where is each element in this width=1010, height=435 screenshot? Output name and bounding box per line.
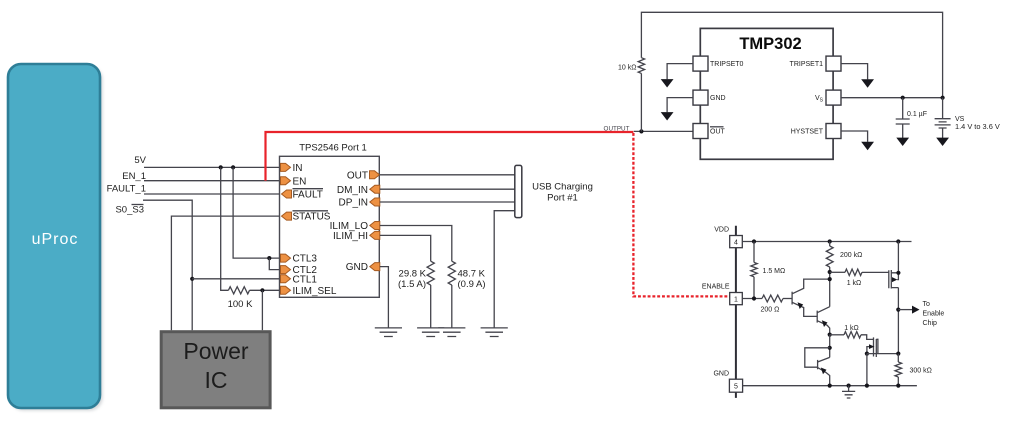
resistor 1 kOhm upper [845, 269, 862, 275]
wire DM_IN to USB port [380, 188, 515, 190]
pin label OUT with overline [710, 127, 726, 136]
svg-text:5V: 5V [134, 155, 146, 166]
node on 5V wire A [219, 165, 223, 169]
wire M1 source to VDD [897, 242, 899, 273]
pin 5 box [729, 379, 742, 392]
svg-text:TRIPSET1: TRIPSET1 [790, 61, 824, 68]
pin label FAULT with overline [293, 189, 324, 201]
pin GND box [693, 90, 708, 105]
svg-text:CTL1: CTL1 [293, 274, 318, 285]
svg-text:GND: GND [713, 371, 729, 378]
svg-text:TRIPSET0: TRIPSET0 [710, 61, 744, 68]
node 300k gnd [896, 384, 900, 388]
wire 1k upper to gate [862, 271, 889, 273]
wire 200 Ohm to Q1 base [783, 298, 792, 300]
resistor 200 Ohm [762, 295, 783, 302]
wire ILIM_SEL branch to Power IC [261, 290, 263, 330]
resistor R_ILIM 100 K [228, 287, 249, 294]
wire GND pin to ground [380, 267, 389, 328]
transistor Q1 [792, 279, 830, 316]
svg-text:IN: IN [293, 163, 303, 174]
pin TRIPSET1 box [826, 56, 841, 71]
wire 100K to ILIM_SEL [250, 289, 281, 291]
ground arrow TRIPSET0 [661, 79, 674, 87]
wire M2 source to gnd [866, 354, 868, 386]
svg-text:Enable: Enable [923, 311, 945, 318]
node CTL3 [267, 256, 271, 260]
svg-text:OUT: OUT [710, 129, 726, 136]
svg-text:DP_IN: DP_IN [339, 198, 368, 209]
resistor 10 kOhm [638, 58, 644, 74]
svg-text:ILIM_HI: ILIM_HI [333, 231, 368, 242]
ground for GND pin [375, 328, 402, 337]
node on 5V wire B [231, 165, 235, 169]
value label 48.7 K (0.9 A) [458, 269, 486, 291]
wire Q2emitter to Q3 [829, 335, 831, 358]
wire CTL3 node to CTL2 [269, 258, 280, 270]
svg-text:OUTPUT: OUTPUT [604, 125, 630, 132]
wire EN_1 to EN [144, 180, 281, 182]
wire FAULT_1 to FAULT [144, 193, 282, 195]
node Q3 emitter gnd [828, 384, 832, 388]
node VDD mosfet [896, 239, 900, 243]
pin HYSTSET box [826, 124, 841, 139]
pin TRIPSET0 box [693, 56, 708, 71]
ground arrow capacitor [896, 138, 909, 146]
pin arrow IN [281, 163, 291, 171]
wire STATUS to Power IC [171, 216, 281, 330]
resistor 200 kOhm [826, 246, 833, 267]
node 300k top [896, 352, 900, 356]
svg-text:1.4 V to 3.6 V: 1.4 V to 3.6 V [955, 122, 1000, 131]
svg-text:300 kΩ: 300 kΩ [910, 368, 932, 375]
wire M2 drain to 300k node [867, 353, 898, 355]
bus VDD-ENABLE-GND [735, 226, 737, 398]
svg-text:ENABLE: ENABLE [702, 284, 730, 291]
resistor 1 kOhm lower [844, 332, 861, 338]
wire TRIPSET0 to gnd [667, 64, 693, 80]
svg-text:Chip: Chip [923, 320, 938, 327]
node VDD 1.5M [752, 239, 756, 243]
wire 1k upper [830, 271, 845, 273]
wire 5V to IN [144, 166, 281, 168]
node Vs battery [941, 96, 945, 100]
svg-text:100 K: 100 K [228, 299, 253, 310]
wire to enable arrow [898, 306, 919, 314]
wire 1k lower to gate M2 [861, 335, 874, 340]
resistor 1.5 MOhm [751, 242, 757, 299]
svg-text:GND: GND [710, 95, 726, 102]
node M2 source gnd [865, 384, 869, 388]
svg-text:EN_1: EN_1 [122, 171, 146, 182]
pin 4 box [730, 236, 743, 248]
svg-text:5: 5 [734, 384, 738, 391]
capacitor 0.1 uF [896, 98, 910, 138]
svg-text:USB Charging: USB Charging [532, 182, 593, 193]
svg-text:1: 1 [734, 296, 738, 303]
pin arrow CTL1 [281, 275, 291, 283]
transistor Q3 [818, 357, 830, 385]
wire DP_IN to USB port [380, 201, 515, 203]
svg-text:TMP302: TMP302 [739, 35, 801, 53]
svg-text:OUT: OUT [347, 170, 368, 181]
ground arrow GND [661, 112, 674, 120]
wire ILIM_HI down [380, 235, 431, 328]
pin arrow CTL3 [281, 254, 291, 262]
pin OUT box [693, 124, 708, 139]
wire M1 drain down [897, 288, 899, 354]
USB connector [515, 165, 522, 217]
wire GND to gnd arrow [667, 98, 693, 113]
wire HYSTSET to gnd [841, 131, 868, 142]
svg-text:HYSTSET: HYSTSET [791, 129, 824, 136]
Power IC block [161, 332, 270, 408]
svg-text:(1.5 A): (1.5 A) [398, 279, 426, 290]
pin arrow ILIM_SEL [281, 286, 291, 294]
node Q3 base loop [828, 346, 832, 350]
svg-text:VDD: VDD [714, 227, 729, 234]
wire OUT to USB port [380, 174, 515, 176]
svg-text:Power: Power [183, 338, 249, 364]
ground arrow battery [936, 138, 949, 146]
svg-text:FAULT_1: FAULT_1 [107, 184, 146, 195]
svg-text:200 Ω: 200 Ω [761, 307, 780, 314]
pin arrow STATUS [282, 212, 292, 220]
pin arrow OUT [370, 171, 380, 179]
svg-text:TPS2546 Port 1: TPS2546 Port 1 [299, 143, 367, 154]
uProc block [8, 64, 103, 411]
label To Enable Chip [923, 301, 945, 327]
svg-text:200 kΩ: 200 kΩ [840, 252, 862, 259]
svg-text:1.5 MΩ: 1.5 MΩ [763, 268, 786, 275]
wire 10k branch [641, 12, 942, 131]
resistor 48.7 K [448, 261, 455, 285]
ground for 48.7K [438, 328, 465, 337]
pin label STATUS with overline [293, 211, 331, 223]
wire CTL1 [192, 278, 281, 280]
GND rail [743, 385, 917, 387]
svg-text:GND: GND [346, 262, 368, 273]
node OUTPUT [639, 129, 643, 133]
node Vs cap [901, 96, 905, 100]
pin Vs box [826, 90, 841, 105]
svg-text:uProc: uProc [32, 231, 79, 248]
wire 5V branch B to CTL3 [233, 167, 281, 258]
svg-text:1 kΩ: 1 kΩ [844, 325, 859, 332]
pin arrow GND [370, 263, 380, 271]
wire Vs to supply [841, 97, 943, 99]
svg-text:S0_S3: S0_S3 [115, 205, 144, 216]
battery VS [935, 98, 951, 138]
svg-text:0.1 µF: 0.1 µF [907, 111, 927, 118]
value label VS 1.4V to 3.6V [955, 116, 1000, 131]
node M2 source [865, 352, 869, 356]
net label S0_S3 with overline [115, 205, 144, 216]
wire 5V branch A to 100K [221, 167, 229, 290]
svg-text:DM_IN: DM_IN [337, 185, 368, 196]
svg-text:To: To [923, 301, 931, 308]
wire S0_S3 to Power IC [143, 200, 192, 330]
resistor 300 kOhm [895, 354, 902, 386]
wire TRIPSET1 to gnd [841, 64, 868, 80]
ground arrow TRIPSET1 [861, 79, 874, 87]
wire 200k to collectors [829, 267, 831, 307]
red dashed wire OUTPUT to ENABLE [633, 133, 730, 296]
pin arrow DP_IN [370, 198, 380, 206]
svg-text:EN: EN [293, 176, 307, 187]
ENABLE rail [742, 298, 762, 300]
pin arrow ILIM_HI [370, 231, 380, 239]
node to-enable [896, 308, 900, 312]
node Q1 collector [828, 277, 832, 281]
node ENABLE 1.5M [752, 296, 756, 300]
svg-text:IC: IC [205, 367, 228, 393]
pin arrow FAULT [282, 190, 292, 198]
node ground stem [847, 384, 851, 388]
svg-text:4: 4 [734, 239, 738, 246]
svg-text:FAULT: FAULT [293, 190, 323, 201]
node M1 source [896, 271, 900, 275]
mosfet M2 [867, 337, 878, 357]
node VDD 200k [828, 239, 832, 243]
svg-text:ILIM_SEL: ILIM_SEL [293, 286, 337, 297]
node CTL1 branch [190, 277, 194, 281]
svg-text:(0.9 A): (0.9 A) [458, 279, 486, 290]
ground for 29.8K [417, 328, 444, 337]
svg-text:CTL3: CTL3 [293, 254, 318, 265]
wire Q3 base loop [805, 348, 830, 367]
pin arrow EN [281, 177, 291, 185]
svg-text:10 kΩ: 10 kΩ [618, 65, 636, 72]
node 200k bottom [828, 270, 832, 274]
red wire OUT to EN [266, 132, 634, 181]
ground for USB port [481, 328, 508, 337]
svg-text:1 kΩ: 1 kΩ [847, 280, 862, 287]
TPS2546 IC body [280, 156, 380, 297]
svg-text:STATUS: STATUS [293, 212, 331, 223]
transistor Q2 [817, 307, 830, 335]
svg-text:Port #1: Port #1 [547, 193, 578, 204]
wire 200k collector column [829, 242, 831, 247]
wire USB shield to ground [494, 211, 515, 328]
label USB Charging Port #1 [532, 182, 593, 204]
svg-text:29.8 K: 29.8 K [399, 269, 427, 280]
wire 1k lower from emitter [830, 334, 844, 336]
pin arrow ILIM_LO [370, 222, 380, 230]
node Q2 emitter 1k [828, 333, 832, 337]
ground symbol enable cell [842, 386, 855, 398]
wire ILIM_LO down [380, 226, 452, 328]
svg-text:48.7 K: 48.7 K [458, 269, 486, 280]
mosfet M1 [889, 270, 899, 289]
value label 29.8 K (1.5 A) [398, 269, 427, 291]
node ILIM_SEL branch [260, 288, 264, 292]
pin arrow DM_IN [370, 185, 380, 193]
VDD rail [742, 241, 911, 243]
wire OUTPUT node to OUT pin [634, 130, 693, 132]
TMP302 IC body [700, 28, 833, 159]
ground arrow HYSTSET [861, 142, 874, 150]
pin 1 box [730, 293, 743, 305]
pin arrow CTL2 [281, 266, 291, 274]
resistor 29.8 K [427, 261, 434, 285]
